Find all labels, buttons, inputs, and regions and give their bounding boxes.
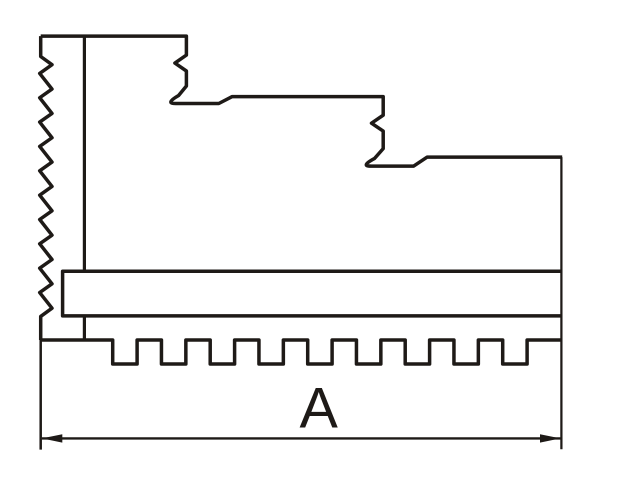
svg-text:A: A — [300, 376, 339, 440]
